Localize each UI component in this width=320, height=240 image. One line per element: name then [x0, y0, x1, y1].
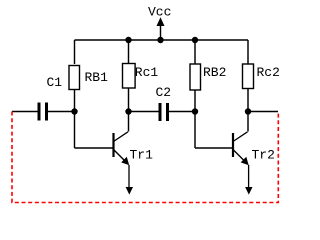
resistor RB2 — [190, 64, 201, 90]
wire: node D to feedback tap — [248, 111, 278, 113]
capacitor C2 — [160, 103, 168, 121]
resistor Rc1 — [123, 64, 136, 89]
svg-text:Tr2: Tr2 — [252, 148, 275, 163]
wire: RB1 bottom to base node A — [74, 90, 76, 149]
wire: Tr2 emitter down lead — [245, 165, 252, 195]
svg-text:Vcc: Vcc — [148, 4, 171, 19]
transistor Tr1 — [114, 132, 130, 165]
svg-text:RB2: RB2 — [203, 65, 226, 80]
wire: base lead to Tr1 — [75, 147, 114, 149]
wire: C1 to node A — [48, 111, 75, 113]
label Vcc — [148, 4, 171, 19]
node D: Rc2 / Tr2 collector / feedback junction — [245, 108, 251, 114]
node: rail junction above RB2 — [192, 37, 198, 43]
label Tr1 — [130, 148, 154, 163]
wire: C2 to node C — [169, 111, 195, 113]
node A: C1 / RB1 / Tr1 base junction — [71, 108, 77, 114]
wire: base lead to Tr2 — [195, 147, 233, 149]
Vcc supply arrow — [157, 17, 165, 40]
wire: RB2 bottom to base node C — [194, 90, 196, 148]
node C: C2 / RB2 / Tr2 base junction — [192, 108, 198, 114]
label C1 — [47, 75, 63, 90]
svg-text:Rc1: Rc1 — [135, 65, 159, 80]
wire: rail to RB2 top — [194, 40, 196, 64]
wire: red dashed feedback path — [12, 112, 278, 203]
resistor Rc2 — [243, 64, 254, 89]
wire: Vcc top rail — [75, 39, 249, 41]
wire: Tr1 emitter down lead — [126, 165, 133, 195]
wire: Rc1 bottom to collector node B — [128, 88, 130, 132]
svg-text:C2: C2 — [156, 85, 172, 100]
svg-text:Rc2: Rc2 — [257, 65, 280, 80]
label C2 — [156, 85, 172, 100]
wire: Rc2 bottom to collector node D — [247, 89, 249, 132]
wire: left lead of C1 — [12, 111, 38, 113]
resistor RB1 — [69, 66, 80, 90]
node: rail junction above Rc1 — [125, 37, 131, 43]
wire: rail corner to Rc2 top — [247, 40, 249, 64]
svg-text:Tr1: Tr1 — [130, 148, 154, 163]
label RB2 — [203, 65, 226, 80]
capacitor C1 — [39, 103, 47, 121]
wire: rail to Rc1 top — [128, 40, 130, 64]
label Rc1 — [135, 65, 159, 80]
label RB1 — [85, 70, 109, 85]
transistor Tr2 — [233, 132, 249, 165]
node: rail junction at Vcc tap — [157, 37, 163, 43]
node B: Rc1 / C2 / Tr1 collector junction — [125, 108, 131, 114]
label Rc2 — [257, 65, 280, 80]
label Tr2 — [252, 148, 275, 163]
svg-text:C1: C1 — [47, 75, 63, 90]
wire: node B to C2 — [129, 111, 159, 113]
svg-text:RB1: RB1 — [85, 70, 109, 85]
wire: rail to RB1 top — [74, 40, 76, 64]
